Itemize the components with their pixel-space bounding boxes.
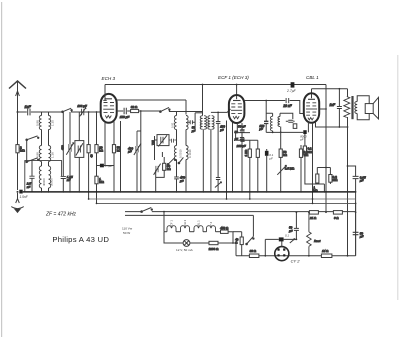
wire (104, 165, 114, 167)
wire (96, 153, 98, 176)
resistor R22 14ohm (321, 249, 332, 257)
resistor R2 40k (87, 145, 93, 158)
switch mains 2 (246, 215, 254, 244)
node (236, 84, 238, 86)
capacitor C26 (235, 137, 245, 192)
wire (264, 239, 266, 255)
wire (257, 157, 259, 192)
svg-text:460: 460 (61, 145, 65, 150)
node (339, 126, 341, 128)
svg-text:pF: pF (299, 138, 304, 142)
svg-text:1.5nF: 1.5nF (20, 195, 29, 199)
inductor L1 (39, 116, 41, 130)
svg-text:1.35: 1.35 (51, 120, 55, 126)
node (140, 110, 142, 112)
wire screen line y100 (117, 100, 186, 115)
capacitor C28 1nF (330, 89, 342, 127)
node (96, 111, 98, 113)
capacitor C8 0.5uF (100, 164, 104, 168)
wire grid slant to ECF1 (211, 109, 231, 112)
svg-text:MΩ: MΩ (308, 150, 313, 154)
wire (72, 111, 101, 112)
wire (97, 165, 100, 167)
tube ECH3 electrodes (103, 99, 114, 118)
wire (265, 101, 267, 122)
wire (137, 130, 141, 132)
junction (88, 198, 90, 200)
svg-text:30000: 30000 (49, 178, 53, 186)
svg-text:1nF: 1nF (25, 105, 32, 109)
wire (355, 179, 357, 256)
svg-text:µF: µF (360, 179, 364, 183)
node (308, 211, 310, 213)
inductor L4 (49, 146, 51, 162)
svg-text:12 V, 50 mA: 12 V, 50 mA (176, 248, 194, 252)
svg-text:2.7µF: 2.7µF (286, 89, 297, 93)
resistor R14 1M (313, 174, 319, 193)
trimmer C7 boxed (75, 141, 84, 158)
resistor R15 0.2M (329, 175, 338, 183)
junction (347, 191, 349, 193)
dial lamp (183, 240, 190, 247)
heater CY 2 (207, 226, 216, 232)
capacitor C27 0.1uF (265, 151, 269, 156)
wire (96, 184, 98, 204)
wire (42, 112, 49, 116)
junction (232, 191, 234, 193)
potentiometer volume 0.5M (277, 164, 295, 175)
wire (62, 179, 64, 192)
wire (265, 238, 296, 240)
wire (176, 111, 178, 116)
inductor L2 (49, 116, 51, 130)
junction (155, 191, 157, 193)
svg-text:200 µF: 200 µF (236, 144, 246, 148)
wire (203, 231, 207, 233)
capacitor C3 2.5nF (26, 161, 35, 192)
svg-text:µF: µF (289, 229, 293, 233)
inductor L8 (186, 116, 188, 130)
wire (305, 154, 325, 192)
node (264, 255, 266, 257)
inductor L10 curl (212, 116, 214, 130)
resistor R11 0.3M (279, 149, 288, 157)
svg-text:4.88: 4.88 (36, 152, 40, 158)
junction (69, 191, 71, 193)
wire (210, 129, 212, 192)
wire (176, 231, 181, 233)
capacitor C12 50pF (188, 113, 195, 133)
speaker (365, 97, 378, 119)
wire (140, 111, 142, 192)
wire (17, 193, 19, 200)
svg-text:450 Ω: 450 Ω (220, 226, 229, 230)
capacitor C15 (169, 139, 177, 143)
junction (113, 191, 115, 193)
wire (280, 132, 282, 164)
wire (31, 111, 63, 113)
node (272, 132, 274, 134)
page edge left (1, 2, 3, 337)
svg-text:pF: pF (191, 129, 196, 133)
transformer secondary (355, 102, 357, 114)
node antenna junction (17, 111, 19, 113)
wire detector out (280, 127, 282, 133)
node (347, 165, 349, 167)
svg-text:µF: µF (180, 179, 184, 183)
junction (280, 191, 282, 193)
wire heater drop (163, 212, 165, 232)
svg-text:62 Ω: 62 Ω (131, 105, 138, 109)
svg-text:µF: µF (360, 235, 364, 239)
transformer primary (344, 97, 350, 118)
tube ECF1 envelope (229, 95, 245, 123)
junction (96, 203, 98, 205)
junction (120, 191, 122, 193)
capacitor C24 8000pF (303, 130, 306, 134)
tube CBL1 electrodes (306, 99, 317, 120)
wire (357, 96, 369, 120)
svg-text:nF: nF (27, 185, 31, 189)
wire (347, 117, 349, 256)
wire (312, 123, 314, 204)
wire (233, 243, 236, 256)
switch S6 (178, 157, 183, 163)
svg-text:pF: pF (219, 128, 224, 132)
wire (88, 112, 90, 145)
capacitor C18 (215, 178, 222, 192)
wire (195, 112, 203, 114)
svg-text:0.5010: 0.5010 (179, 149, 183, 158)
svg-text:ECH 3: ECH 3 (102, 76, 116, 81)
svg-text:µF: µF (235, 137, 239, 141)
bus y199 (89, 198, 356, 200)
tube ECH3 envelope (101, 94, 117, 123)
wire (113, 153, 115, 192)
resistor R19 30ohm (249, 249, 259, 257)
junction (185, 191, 187, 193)
inductor L3 (39, 146, 41, 162)
switch S1 (26, 136, 39, 141)
resistor R18 40ohm (235, 237, 243, 245)
bus y203.4 (97, 202, 356, 204)
wire (78, 112, 80, 141)
wire (233, 231, 242, 233)
resistor R17 1300ohm (209, 241, 220, 251)
capacitor C10 50uF (120, 108, 130, 119)
wire (300, 145, 302, 192)
node (88, 111, 90, 113)
wire (127, 110, 130, 112)
capacitor C1 1nF (25, 105, 32, 115)
capacitor C13 180pF (216, 112, 226, 177)
node (265, 100, 267, 102)
svg-text:40000: 40000 (42, 178, 46, 186)
mains line 2 (125, 214, 253, 216)
trimmer C6 (61, 143, 74, 155)
node (325, 108, 327, 110)
wire (236, 85, 238, 100)
svg-text:0.1: 0.1 (285, 233, 289, 237)
switch S4 (160, 107, 171, 112)
trimmer C5 100pF (77, 104, 87, 116)
wire (136, 152, 138, 192)
svg-text:1300 Ω: 1300 Ω (209, 247, 220, 251)
svg-text:µF: µF (269, 156, 273, 160)
wire (347, 89, 349, 97)
wire (232, 123, 234, 192)
svg-text:705: 705 (151, 140, 155, 145)
junction (355, 191, 357, 193)
wire grid line (169, 110, 203, 111)
junction (300, 191, 302, 193)
svg-text:20 nF: 20 nF (282, 104, 292, 108)
wire (62, 112, 64, 176)
wire (355, 203, 357, 255)
svg-text:1 MΩ: 1 MΩ (244, 150, 248, 157)
capacitor C20 200uF (236, 139, 246, 148)
svg-text:MΩ: MΩ (99, 180, 104, 184)
CY2 electrodes (277, 248, 285, 256)
switch S3 (62, 108, 73, 112)
svg-text:MΩ: MΩ (20, 149, 25, 153)
wire (304, 134, 306, 146)
wire (325, 85, 327, 213)
node (347, 255, 349, 257)
node (325, 167, 327, 169)
wire (18, 111, 27, 113)
switch S5 (167, 158, 176, 165)
wire (266, 113, 272, 116)
node (339, 88, 341, 90)
wire (241, 123, 243, 130)
resistor R13 0.2M (303, 146, 313, 154)
wire (280, 174, 282, 192)
node (17, 191, 19, 193)
rectifier CY2 (275, 247, 289, 261)
heater CBL 1 (194, 226, 203, 232)
junction (41, 191, 43, 193)
resistor R10 (256, 149, 259, 157)
wire (113, 121, 115, 145)
wire (216, 231, 221, 233)
junction (312, 203, 314, 205)
ground main (11, 199, 23, 213)
junction (266, 191, 268, 193)
junction (257, 191, 259, 193)
resistor R3 20k (95, 145, 104, 153)
wire ECH3 plate top (103, 85, 106, 101)
svg-text:30 Ω: 30 Ω (250, 249, 257, 253)
wire (42, 130, 49, 146)
inductor L10 osc (208, 116, 210, 130)
svg-text:CY 2: CY 2 (291, 259, 301, 264)
wire (17, 112, 19, 145)
wire lamp line (164, 232, 183, 243)
svg-text:0.91: 0.91 (199, 121, 203, 127)
wire (290, 101, 304, 114)
wire (117, 110, 124, 112)
resistor Rnet (307, 212, 321, 256)
resistor R7 50k (163, 163, 172, 171)
capacitor C30 0.1 (279, 237, 284, 241)
inductor L6 (49, 166, 51, 188)
wire (272, 131, 274, 133)
svg-text:1.38: 1.38 (51, 152, 55, 158)
tube ECF1 electrodes (231, 101, 242, 119)
wire (120, 121, 122, 192)
wire (281, 239, 283, 246)
wire (218, 242, 233, 244)
svg-text:ZF = 472 kHz: ZF = 472 kHz (45, 212, 77, 218)
svg-text:MΩ: MΩ (333, 178, 338, 182)
wire (69, 152, 71, 192)
capacitor C29 0.05uF (353, 176, 366, 183)
wire plate right (319, 108, 326, 110)
wire (329, 168, 331, 185)
svg-text:Rnet: Rnet (314, 239, 321, 243)
bus chassis y192 (23, 191, 356, 193)
node (296, 239, 298, 241)
wire (244, 100, 285, 102)
svg-text:0.91: 0.91 (171, 122, 175, 128)
junction (210, 191, 212, 193)
capacitor C2 1.5nF feedthrough (19, 190, 22, 194)
node (232, 242, 234, 244)
junction (202, 191, 204, 193)
svg-text:CY 2: CY 2 (209, 221, 213, 228)
capacitor C23 70pF (290, 119, 295, 121)
inductor L5 (39, 166, 41, 188)
junction (140, 191, 142, 193)
junction (136, 191, 138, 193)
inductor L12 (186, 146, 188, 160)
wire (185, 160, 187, 192)
junction (176, 191, 178, 193)
heater ECF 1 (167, 226, 176, 232)
svg-text:4000: 4000 (206, 121, 210, 127)
capacitor C19 50uF (238, 125, 246, 133)
junction (249, 198, 251, 200)
capacitor C17 470pF (174, 160, 185, 192)
svg-text:21 Ω: 21 Ω (309, 216, 317, 220)
svg-text:ECF 1 (ECH 3): ECF 1 (ECH 3) (218, 75, 249, 80)
wire (228, 232, 242, 243)
diode loop (278, 113, 297, 128)
inductor L7 (174, 116, 176, 130)
wire (177, 130, 187, 146)
svg-text:CBL 1: CBL 1 (197, 220, 201, 228)
wire HT top line (105, 84, 326, 86)
junction (241, 191, 243, 193)
wire osc HT drop (202, 85, 204, 116)
wire (69, 112, 71, 144)
resistor R12 0.2M (299, 149, 309, 157)
wire (78, 157, 80, 192)
mains line 1 (125, 211, 141, 213)
svg-text:CBL 1: CBL 1 (306, 75, 319, 80)
wire (266, 131, 303, 133)
switch S2 (26, 158, 39, 163)
svg-text:9 Ω: 9 Ω (334, 216, 339, 220)
wire grid top (311, 89, 313, 98)
svg-text:ECF 1: ECF 1 (170, 220, 174, 228)
inductor L13 IF primary (270, 116, 272, 131)
wire (190, 242, 209, 244)
switch mains (141, 208, 153, 213)
wire (312, 88, 348, 90)
capacitor C9 2.7uF (291, 82, 295, 87)
resistor R4 1M pot (95, 176, 105, 184)
wire (96, 112, 98, 145)
resistor R1 (16, 145, 26, 153)
node (217, 112, 219, 114)
wire (266, 149, 268, 192)
capacitor C32 50uF (353, 231, 364, 238)
wire (241, 245, 243, 256)
junction (325, 211, 327, 213)
junction (355, 203, 357, 205)
svg-text:150 µF: 150 µF (120, 115, 130, 119)
node (296, 211, 298, 213)
wire (303, 108, 305, 110)
node (347, 126, 349, 128)
inductor L9 osc curl (204, 116, 206, 130)
trimmer C16 (154, 164, 161, 175)
svg-text:40: 40 (89, 154, 93, 158)
wire (202, 129, 204, 192)
transformer core (351, 96, 353, 119)
antenna (9, 81, 26, 112)
heater ECH 3 (181, 226, 190, 232)
junction (226, 198, 228, 200)
wire (316, 168, 318, 185)
trimmer C14 padder (151, 135, 169, 147)
arrow adjust (290, 239, 295, 243)
trimmer C11 400pF (128, 131, 141, 155)
svg-text:0.1010: 0.1010 (188, 149, 192, 158)
resistor R5 62ohm (131, 105, 139, 112)
svg-text:0.88: 0.88 (36, 120, 40, 126)
capacitor C22 150pF (258, 121, 268, 132)
junction (62, 191, 64, 193)
wire (164, 231, 167, 233)
node (202, 84, 204, 86)
wire (155, 136, 163, 160)
page edge right (397, 55, 399, 300)
svg-text:14 Ω: 14 Ω (322, 249, 329, 253)
wire (348, 166, 356, 176)
junction (355, 211, 357, 213)
wire switch bus (26, 140, 28, 162)
wire (156, 157, 165, 192)
wire (316, 122, 348, 127)
node (163, 211, 165, 213)
svg-text:0.5 MΩ: 0.5 MΩ (285, 166, 295, 170)
wire (250, 140, 258, 149)
capacitor C31 50uF (289, 212, 299, 239)
capacitor C4 1.25nF (61, 175, 73, 182)
wire (236, 123, 238, 132)
resistor R21 9ohm (333, 211, 342, 220)
wire (104, 122, 106, 166)
wire (226, 121, 228, 200)
wire (249, 157, 251, 199)
junction (312, 198, 314, 200)
junction (324, 191, 326, 193)
resistor R6 50k (112, 145, 121, 153)
junction (48, 191, 50, 193)
